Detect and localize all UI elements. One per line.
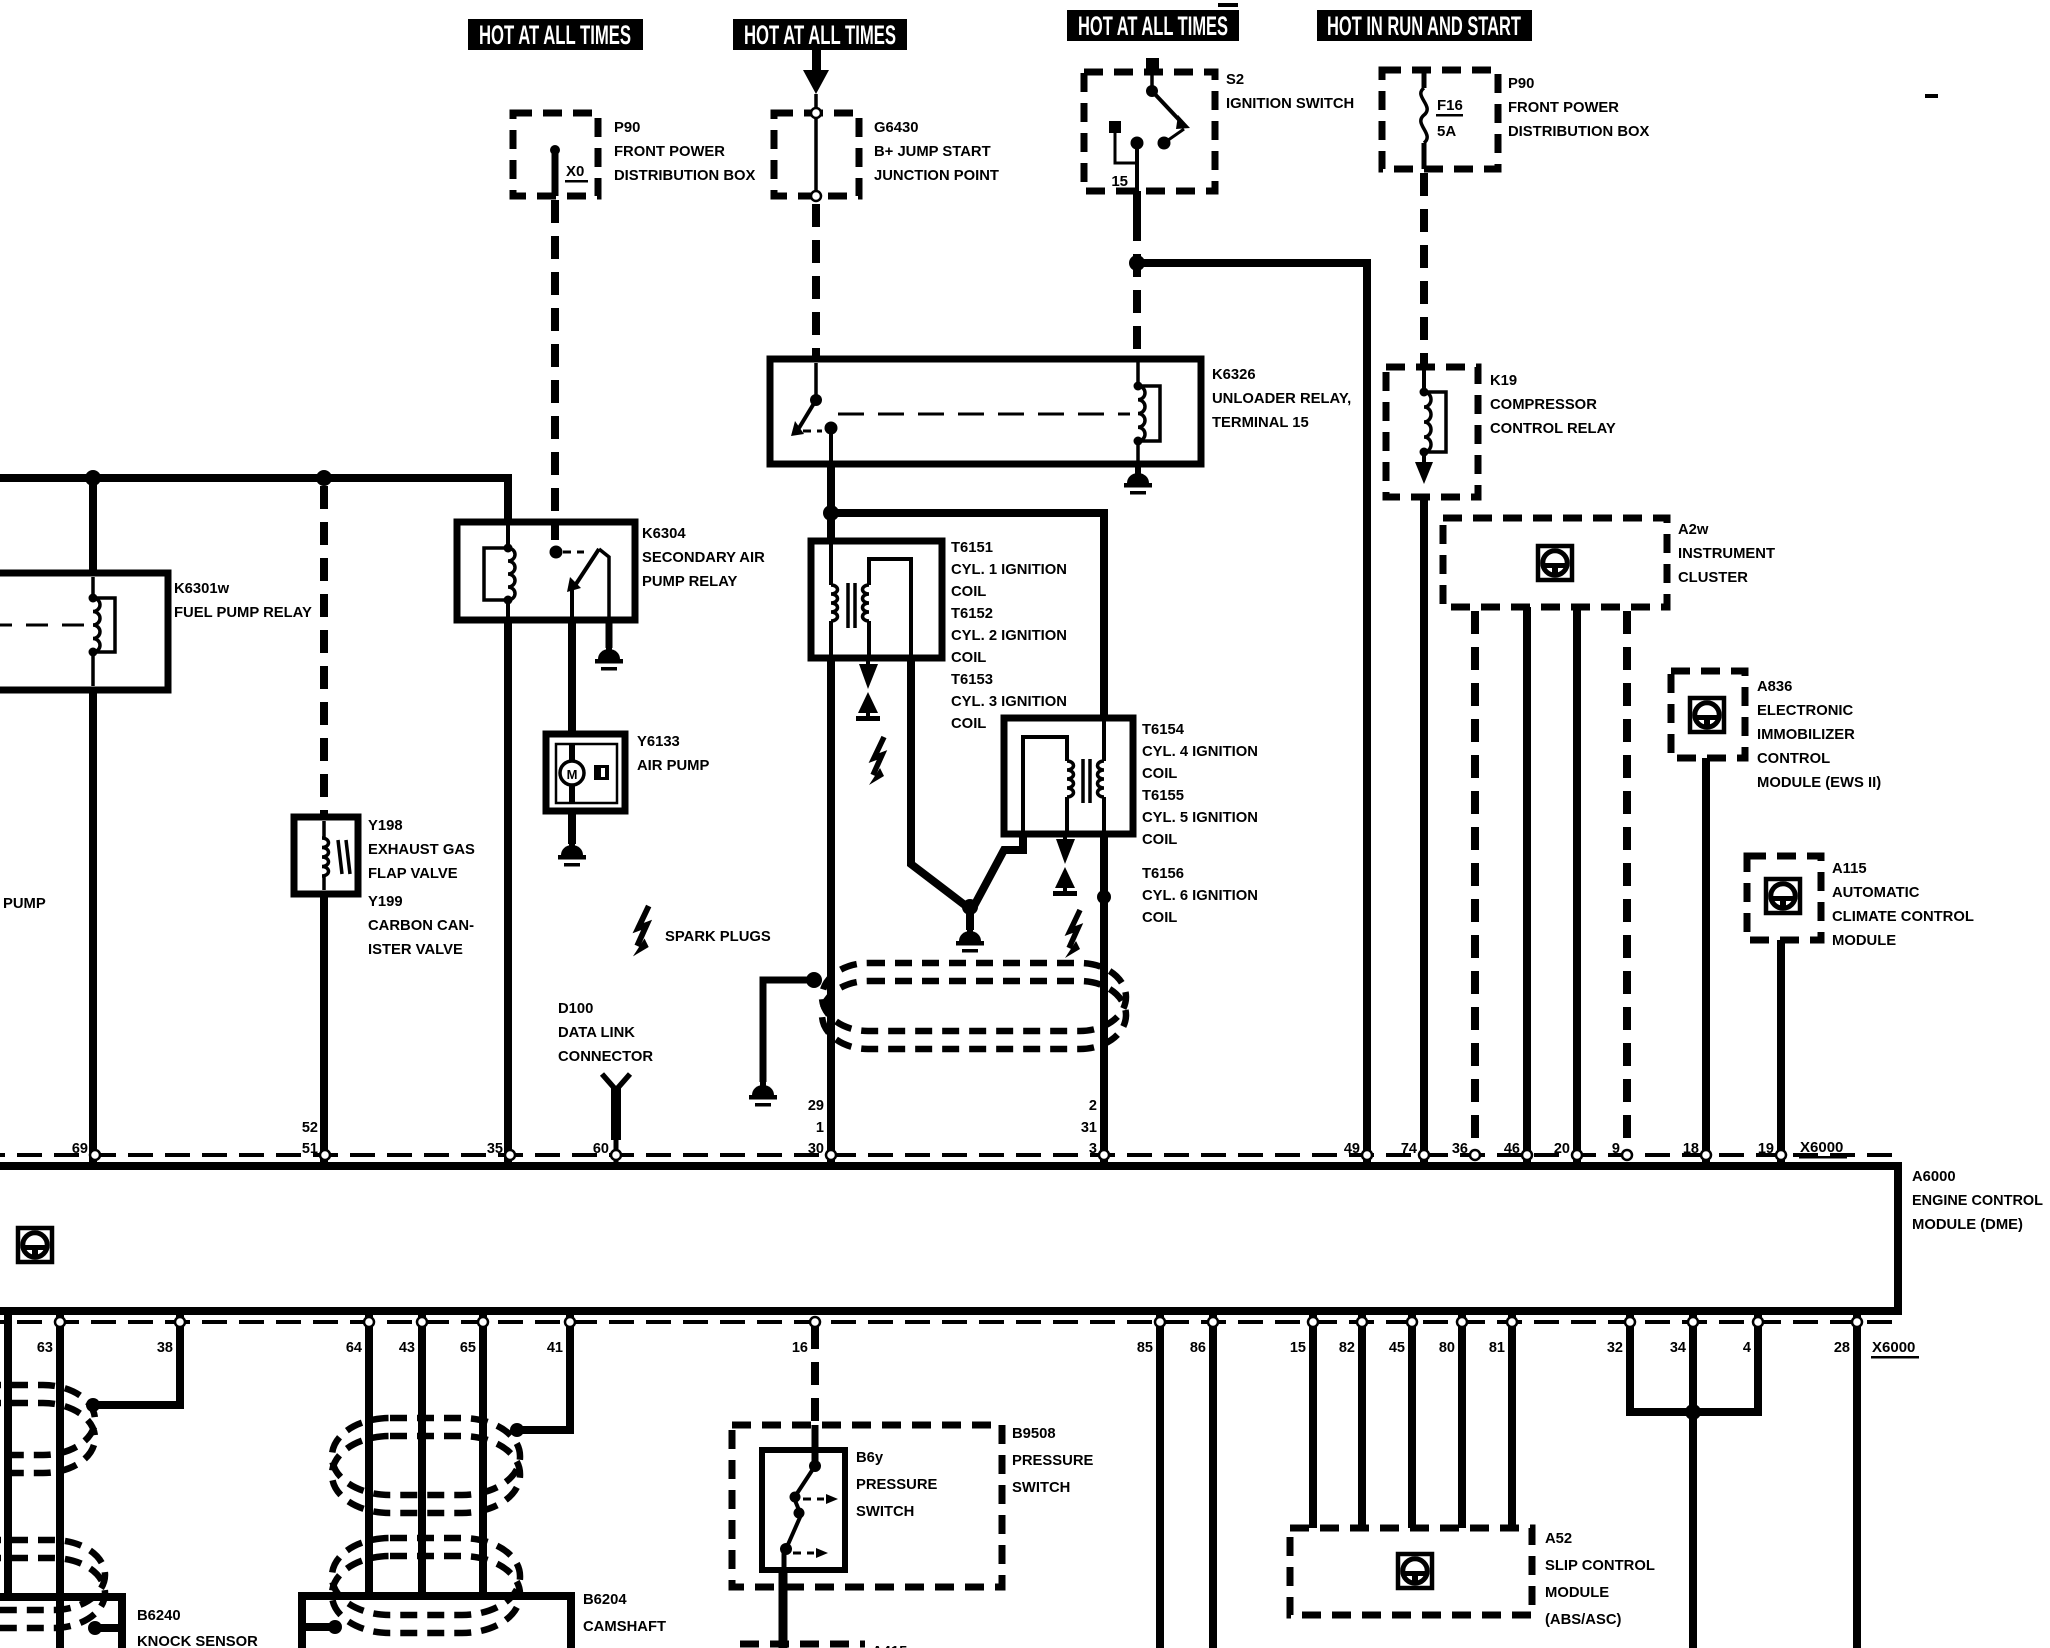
T6154 spark output arrow down <box>1056 834 1075 864</box>
svg-text:A2w: A2w <box>1678 522 1709 538</box>
svg-text:A6000: A6000 <box>1912 1169 1956 1185</box>
svg-text:46: 46 <box>1504 1141 1520 1157</box>
ground below coil secondary junction <box>956 923 984 953</box>
Y198 valve coil and flap symbol <box>322 821 350 890</box>
wire bus down to Y198 (dashed) <box>320 486 328 817</box>
wire T6154 primary to ECM pins 2/31/3 <box>1100 834 1108 1166</box>
svg-text:30: 30 <box>808 1141 824 1157</box>
wire ECM pin 63 down <box>56 1311 64 1648</box>
connector X6000 dashed line (bottom) <box>0 1320 1898 1324</box>
label D100 data link connector <box>558 1001 653 1065</box>
svg-text:86: 86 <box>1190 1340 1206 1356</box>
svg-text:32: 32 <box>1607 1340 1623 1356</box>
wire T6154 secondary return (diagonal) <box>974 834 1023 906</box>
K6301w relay coil <box>89 577 116 686</box>
svg-text:34: 34 <box>1670 1340 1686 1356</box>
svg-text:SWITCH: SWITCH <box>856 1504 914 1520</box>
svg-text:X0: X0 <box>566 163 584 180</box>
svg-text:A115: A115 <box>1832 861 1867 877</box>
X6000 bottom terminal circle pin 80 <box>1457 1317 1467 1327</box>
module A836 EWS dashed box <box>1671 671 1745 758</box>
svg-text:M: M <box>567 767 578 782</box>
junction bus to Y198 valve <box>316 470 332 486</box>
air pump Y6133 box <box>546 734 625 811</box>
ECM top pin 29 and 1 (stacked over 30) <box>808 1098 824 1136</box>
T6154 primary winding <box>1098 718 1105 834</box>
K6326 switch <box>791 363 838 464</box>
A115 steering wheel icon <box>1766 879 1800 913</box>
svg-text:20: 20 <box>1554 1141 1570 1157</box>
wire ECM pin 28 down to bottom edge <box>1853 1311 1861 1648</box>
svg-text:HOT AT ALL TIMES: HOT AT ALL TIMES <box>479 20 631 50</box>
svg-text:T6154: T6154 <box>1142 722 1185 738</box>
T6151 spark plug arrow up with bar <box>856 692 880 721</box>
X6000 bottom terminal circle pin 34 <box>1688 1317 1698 1327</box>
svg-text:K19: K19 <box>1490 373 1517 389</box>
svg-text:B6240: B6240 <box>137 1608 181 1624</box>
svg-text:B6y: B6y <box>856 1450 884 1466</box>
svg-text:K6304: K6304 <box>642 526 686 542</box>
connector D100 fork symbol <box>602 1074 630 1140</box>
svg-text:AIR PUMP: AIR PUMP <box>637 758 709 774</box>
svg-text:CLUSTER: CLUSTER <box>1678 570 1748 586</box>
svg-text:K6326: K6326 <box>1212 367 1256 383</box>
wire K6304 switch to Y6133 <box>568 620 576 734</box>
wire junction down to T6151 <box>827 517 835 541</box>
svg-text:A415: A415 <box>872 1644 907 1648</box>
label K6326 unloader relay terminal 15 <box>1212 367 1351 431</box>
switch S2 dashed outline <box>1084 72 1215 191</box>
ground below K6326 <box>1124 465 1152 495</box>
label A6000 engine control module (DME) <box>1912 1169 2043 1233</box>
svg-text:T6156: T6156 <box>1142 866 1184 882</box>
svg-text:DISTRIBUTION BOX: DISTRIBUTION BOX <box>1508 124 1650 140</box>
svg-text:Y6133: Y6133 <box>637 734 680 750</box>
ignition coil T6154 box <box>1004 718 1133 834</box>
valve Y198/Y199 box <box>294 817 358 894</box>
module A52 dashed box <box>1290 1528 1532 1615</box>
banner HOT AT ALL TIMES 2 <box>733 19 907 50</box>
svg-text:SLIP CONTROL: SLIP CONTROL <box>1545 1558 1655 1574</box>
K19 output arrow <box>1415 452 1433 484</box>
svg-text:CYL. 3 IGNITION: CYL. 3 IGNITION <box>951 694 1067 710</box>
svg-text:P90: P90 <box>1508 76 1534 92</box>
svg-text:64: 64 <box>346 1340 362 1356</box>
svg-text:CONTROL RELAY: CONTROL RELAY <box>1490 421 1616 437</box>
svg-text:15: 15 <box>1111 173 1128 190</box>
svg-text:Y199: Y199 <box>368 894 403 910</box>
cut-off dashed box below B6y <box>740 1641 865 1648</box>
label P90 front power distribution box (left) <box>614 120 756 184</box>
svg-text:K6301w: K6301w <box>174 581 230 597</box>
wire ECM pin 81 to A52 <box>1508 1311 1516 1528</box>
wire ECM pin 34 down <box>1689 1311 1697 1412</box>
svg-text:31: 31 <box>1081 1120 1097 1136</box>
svg-text:51: 51 <box>302 1141 318 1157</box>
svg-text:CYL. 6 IGNITION: CYL. 6 IGNITION <box>1142 888 1258 904</box>
S2 ignition switch contacts and blade <box>1109 58 1190 191</box>
relay K6301w box <box>0 573 168 690</box>
svg-text:3: 3 <box>1089 1141 1097 1157</box>
wire ECM pin 82 to A52 <box>1358 1311 1366 1528</box>
wire A836 to ECM pin 18 <box>1702 758 1710 1166</box>
label P90 front power distribution box (right) <box>1508 76 1650 140</box>
ground below K6304 <box>595 641 623 671</box>
X6000 top terminal circle pin 18 <box>1701 1150 1711 1160</box>
X6000 top terminal circle pin 69 <box>90 1150 100 1160</box>
knock sensor shield upper dashed stadium A <box>0 1385 95 1455</box>
junction bus to fuel pump relay <box>85 470 101 486</box>
fuse box P90 (right) dashed outline <box>1382 70 1498 169</box>
svg-text:45: 45 <box>1389 1340 1405 1356</box>
T6151 spark output arrow down <box>859 658 878 689</box>
knock shield tap junction <box>86 1398 100 1412</box>
svg-text:FUEL PUMP RELAY: FUEL PUMP RELAY <box>174 605 312 621</box>
camshaft shield upper dashed stadium A <box>332 1418 520 1495</box>
X6000 bottom terminal circle pin 28 <box>1852 1317 1862 1327</box>
ground for coil shield <box>749 1077 777 1107</box>
label A115 automatic climate control module <box>1832 861 1974 949</box>
svg-text:PUMP: PUMP <box>3 896 46 912</box>
wire junction to ground <box>966 907 974 930</box>
wire shield tap to ground <box>763 980 814 1082</box>
wire ECM pin 32 down <box>1626 1311 1634 1412</box>
svg-text:CONNECTOR: CONNECTOR <box>558 1049 653 1065</box>
svg-text:28: 28 <box>1834 1340 1850 1356</box>
svg-text:D100: D100 <box>558 1001 593 1017</box>
scan speck right of P90 label <box>1925 94 1938 98</box>
label A2w instrument cluster <box>1678 522 1775 586</box>
wire ECM pin 45 to A52 <box>1408 1311 1416 1528</box>
relay K19 dashed outline <box>1386 367 1478 497</box>
svg-text:B9508: B9508 <box>1012 1426 1056 1442</box>
svg-text:TERMINAL 15: TERMINAL 15 <box>1212 415 1309 431</box>
wire Y6133 to ground <box>568 811 576 844</box>
spark bolt near T6154 <box>1065 910 1080 958</box>
scan speck above banner 3 <box>1218 3 1238 7</box>
svg-text:COIL: COIL <box>951 584 986 600</box>
svg-text:CYL. 1 IGNITION: CYL. 1 IGNITION <box>951 562 1067 578</box>
X6000 top terminal circle pin 20 <box>1572 1150 1582 1160</box>
svg-text:69: 69 <box>72 1141 88 1157</box>
wire T6151 secondary return (diagonal) <box>911 658 966 906</box>
A6000 steering wheel icon <box>18 1228 52 1262</box>
label B9508 pressure switch <box>1012 1426 1094 1496</box>
label K6301w fuel pump relay <box>174 581 312 621</box>
module A2w instrument cluster dashed box <box>1443 518 1667 607</box>
svg-text:COIL: COIL <box>951 716 986 732</box>
svg-text:4: 4 <box>1743 1340 1751 1356</box>
wire merge bar down to bottom edge <box>1689 1412 1697 1648</box>
ground below Y6133 <box>558 837 586 867</box>
wire S2 terminal 15 down (solid then dashed) <box>1133 191 1141 218</box>
K19 relay coil <box>1420 367 1447 457</box>
junction on S2 wire <box>1129 255 1145 271</box>
svg-text:F16: F16 <box>1437 97 1463 114</box>
junction below K6326 <box>823 505 839 521</box>
svg-text:IGNITION SWITCH: IGNITION SWITCH <box>1226 96 1354 112</box>
svg-text:Y198: Y198 <box>368 818 403 834</box>
svg-text:36: 36 <box>1452 1141 1468 1157</box>
fuse F16 5A symbol <box>1421 70 1427 169</box>
svg-text:38: 38 <box>157 1340 173 1356</box>
label X6000 (bottom, underlined) <box>1871 1339 1919 1359</box>
svg-text:SPARK PLUGS: SPARK PLUGS <box>665 929 771 945</box>
svg-text:1: 1 <box>816 1120 824 1136</box>
X6000 bottom terminal circle pin 85 <box>1155 1317 1165 1327</box>
X6000 bottom terminal circle pin 65 <box>478 1317 488 1327</box>
svg-text:PUMP RELAY: PUMP RELAY <box>642 574 738 590</box>
connector B6240 bar <box>0 1597 122 1648</box>
wire K6301w to ECM pin 69 <box>89 690 97 1166</box>
svg-text:9: 9 <box>1612 1141 1620 1157</box>
wire ECM pin 64 down to B6204 <box>365 1311 373 1596</box>
X6000 top terminal circle pin 36 <box>1470 1150 1480 1160</box>
B6204 stub with junction <box>302 1620 342 1634</box>
ignition coil T6151 box <box>811 541 942 658</box>
svg-text:MODULE (EWS II): MODULE (EWS II) <box>1757 775 1881 791</box>
wire from S2 junction to ECM pin 49 (right angle) <box>1141 263 1367 1166</box>
svg-text:T6151: T6151 <box>951 540 993 556</box>
horizontal power bus wire <box>0 478 508 522</box>
svg-text:COIL: COIL <box>1142 766 1177 782</box>
ECM top pin 2 and 31 (stacked over 3) <box>1081 1098 1097 1136</box>
A52 steering wheel icon <box>1398 1554 1432 1588</box>
X6000 top terminal circle pin 30 <box>826 1150 836 1160</box>
label K19 compressor control relay <box>1490 373 1616 437</box>
K6326 internal dashed link line <box>838 413 1130 416</box>
label B6240 knock sensor <box>137 1608 258 1648</box>
svg-text:ISTER VALVE: ISTER VALVE <box>368 942 463 958</box>
wire A2w to ECM pin 9 (dashed) <box>1623 611 1631 1152</box>
svg-text:19: 19 <box>1758 1141 1774 1157</box>
svg-text:ENGINE CONTROL: ENGINE CONTROL <box>1912 1193 2043 1209</box>
X6000 bottom terminal circle pin 16 <box>810 1317 820 1327</box>
switch B9508 outer dashed box <box>732 1425 1002 1587</box>
knock sensor shield lower dashed stadium B <box>0 1558 105 1628</box>
svg-text:74: 74 <box>1401 1141 1417 1157</box>
svg-text:SWITCH: SWITCH <box>1012 1480 1070 1496</box>
X6000 bottom terminal circle pin 86 <box>1208 1317 1218 1327</box>
wire ECM pin 86 down to bottom edge <box>1209 1311 1217 1648</box>
junction of coil secondary returns <box>962 899 978 915</box>
svg-text:HOT AT ALL TIMES: HOT AT ALL TIMES <box>744 20 896 50</box>
camshaft shield lower dashed stadium B <box>332 1556 520 1633</box>
label X0 (underlined) <box>565 163 588 183</box>
wire ECM pin 65 down to B6204 <box>479 1311 487 1596</box>
wire K19 to ECM pin 74 <box>1420 497 1428 1166</box>
X6000 bottom terminal circle pin 81 <box>1507 1317 1517 1327</box>
K6304 switch <box>550 546 610 621</box>
label A52 slip control module (ABS/ASC) <box>1545 1531 1655 1628</box>
label X6000 (top, underlined) <box>1799 1139 1847 1159</box>
banner HOT IN RUN AND START <box>1317 10 1532 41</box>
svg-text:18: 18 <box>1683 1141 1699 1157</box>
banner HOT AT ALL TIMES 1 <box>468 19 643 50</box>
svg-text:82: 82 <box>1339 1340 1355 1356</box>
fuse box P90 (left) dashed outline <box>513 113 598 196</box>
svg-text:5A: 5A <box>1437 123 1456 140</box>
svg-text:PRESSURE: PRESSURE <box>1012 1453 1094 1469</box>
svg-text:MODULE: MODULE <box>1545 1585 1609 1601</box>
switch B6y inner box <box>762 1450 845 1570</box>
X6000 top terminal circle pin 49 <box>1362 1150 1372 1160</box>
T6154 core <box>1083 759 1090 803</box>
A2w steering wheel icon <box>1538 546 1572 580</box>
T6154 spark plug arrow up with bar <box>1053 867 1077 896</box>
svg-text:FLAP VALVE: FLAP VALVE <box>368 866 458 882</box>
connector B6204 bar <box>302 1596 571 1648</box>
wire A115 to ECM pin 19 <box>1777 940 1785 1166</box>
X6000 top terminal circle pin 19 <box>1776 1150 1786 1160</box>
wire K6326 coil to ground <box>1135 464 1141 474</box>
svg-text:T6152: T6152 <box>951 606 993 622</box>
svg-text:X6000: X6000 <box>1872 1339 1915 1356</box>
wire ECM pin 16 to B6y (dashed) <box>811 1326 819 1425</box>
label B6y pressure switch <box>856 1450 938 1520</box>
X6000 top terminal circle pin 74 <box>1419 1150 1429 1160</box>
svg-text:COIL: COIL <box>1142 832 1177 848</box>
svg-text:T6155: T6155 <box>1142 788 1184 804</box>
Y6133 motor symbol <box>560 744 609 803</box>
svg-text:80: 80 <box>1439 1340 1455 1356</box>
svg-text:T6153: T6153 <box>951 672 993 688</box>
wire K6304 contact to ground <box>606 620 613 648</box>
camshaft shield lower dashed stadium A <box>332 1538 520 1615</box>
X6000 bottom terminal circle pin 15 <box>1308 1317 1318 1327</box>
T6154 secondary loop and winding <box>1023 737 1074 834</box>
module A115 dashed box <box>1747 856 1821 940</box>
wire ECM pin 4 down <box>1754 1311 1762 1412</box>
svg-text:16: 16 <box>792 1340 808 1356</box>
node G6430 B+ jump start arrow <box>803 50 829 94</box>
label F16 / 5A (underlined) <box>1436 97 1463 140</box>
label T6151/T6152/T6153 cyl 1-3 ignition coils <box>951 540 1067 732</box>
label Y6133 air pump <box>637 734 709 774</box>
X6000 bottom terminal circle pin 38 <box>175 1317 185 1327</box>
T6151 core <box>848 583 855 628</box>
label S2 ignition switch <box>1226 72 1354 112</box>
svg-text:COIL: COIL <box>951 650 986 666</box>
wire P90 F16 down to K19 (dashed) <box>1420 173 1428 367</box>
camshaft shield tap junction <box>510 1423 524 1437</box>
X6000 bottom terminal circle pin 41 <box>565 1317 575 1327</box>
wire T6151 primary to ECM pins 29/1/30 <box>827 658 835 1166</box>
svg-text:FRONT POWER: FRONT POWER <box>614 144 725 160</box>
module A6000 engine control module box <box>0 1166 1898 1311</box>
wire A2w to ECM pin 46 <box>1523 607 1531 1166</box>
svg-text:CYL. 2 IGNITION: CYL. 2 IGNITION <box>951 628 1067 644</box>
wire G6430 to K6326 (dashed) <box>812 204 820 359</box>
wire ECM pin 41 to camshaft shield tap <box>517 1311 570 1430</box>
wire K6326 switch output down <box>827 464 835 513</box>
svg-text:COMPRESSOR: COMPRESSOR <box>1490 397 1597 413</box>
svg-text:DATA LINK: DATA LINK <box>558 1025 635 1041</box>
svg-text:CONTROL: CONTROL <box>1757 751 1830 767</box>
label G6430 B+ jump start junction point <box>874 120 999 184</box>
T6151 primary winding <box>831 541 838 658</box>
wire D100 to ECM pin 60 <box>614 1140 619 1166</box>
svg-text:COIL: COIL <box>1142 910 1177 926</box>
svg-text:FRONT POWER: FRONT POWER <box>1508 100 1619 116</box>
banner HOT AT ALL TIMES 3 <box>1067 10 1239 41</box>
P90 left internal wire stub X0 <box>550 145 560 196</box>
svg-text:S2: S2 <box>1226 72 1244 88</box>
K6304 relay coil <box>484 522 515 620</box>
X6000 top terminal circle pin 9 <box>1622 1150 1632 1160</box>
svg-text:41: 41 <box>547 1340 563 1356</box>
svg-text:EXHAUST GAS: EXHAUST GAS <box>368 842 475 858</box>
svg-text:HOT IN RUN AND START: HOT IN RUN AND START <box>1327 11 1521 41</box>
label Y198 exhaust gas flap valve / Y199 carbon canister valve <box>368 818 475 958</box>
svg-text:81: 81 <box>1489 1340 1505 1356</box>
svg-text:UNLOADER RELAY,: UNLOADER RELAY, <box>1212 391 1351 407</box>
X6000 top terminal circle pin 51 <box>320 1150 330 1160</box>
X6000 bottom terminal circle pin 64 <box>364 1317 374 1327</box>
X6000 top terminal circle pin 35 <box>505 1150 515 1160</box>
svg-text:KNOCK SENSOR: KNOCK SENSOR <box>137 1634 258 1648</box>
B6y switch mechanism <box>780 1425 838 1570</box>
wire ECM pin 43 down to B6204 <box>418 1311 426 1596</box>
svg-text:52: 52 <box>302 1120 318 1136</box>
label T6154/T6155/T6156 cyl 4-6 ignition coils <box>1142 722 1258 926</box>
wire Y198 to ECM pins 52/51 <box>320 894 328 1166</box>
spark bolt near T6151 <box>869 737 884 785</box>
wire ECM pin 15 to A52 <box>1309 1311 1317 1528</box>
shield ground tap junction <box>806 972 822 988</box>
svg-text:IMMOBILIZER: IMMOBILIZER <box>1757 727 1855 743</box>
wire ECM pin 80 to A52 <box>1458 1311 1466 1528</box>
svg-text:85: 85 <box>1137 1340 1153 1356</box>
A836 steering wheel icon <box>1690 698 1724 732</box>
G6430 internal wire with terminals <box>811 94 821 201</box>
X6000 bottom terminal circle pin 32 <box>1625 1317 1635 1327</box>
svg-text:CAMSHAFT: CAMSHAFT <box>583 1619 666 1635</box>
shield braid around coil wires (upper dashed stadium) <box>822 963 1126 1031</box>
svg-text:2: 2 <box>1089 1098 1097 1114</box>
X6000 bottom terminal circle pin 82 <box>1357 1317 1367 1327</box>
svg-text:65: 65 <box>460 1340 476 1356</box>
svg-text:DISTRIBUTION BOX: DISTRIBUTION BOX <box>614 168 756 184</box>
wire from P90 X0 down to K6304 (dashed hot feed) <box>551 200 559 540</box>
svg-text:AUTOMATIC: AUTOMATIC <box>1832 885 1920 901</box>
wire junction to T6154 primary feed (right angle) <box>835 513 1104 718</box>
relay K6304 box <box>457 522 635 620</box>
svg-text:HOT AT ALL TIMES: HOT AT ALL TIMES <box>1078 11 1228 41</box>
wire A2w to ECM pin 36 (dashed) <box>1471 611 1479 1152</box>
svg-text:B6204: B6204 <box>583 1592 627 1608</box>
wire K6304 coil to ECM pin 35 <box>504 620 512 1166</box>
X6000 top terminal circle pin 60 <box>611 1150 621 1160</box>
svg-text:A52: A52 <box>1545 1531 1572 1547</box>
junction point G6430 dashed outline <box>774 113 859 196</box>
wire ECM pin 85 down to bottom edge <box>1156 1311 1164 1648</box>
T6151 secondary winding and loop <box>863 559 912 658</box>
svg-text:CARBON CAN-: CARBON CAN- <box>368 918 474 934</box>
X6000 bottom terminal circle pin 43 <box>417 1317 427 1327</box>
svg-text:43: 43 <box>399 1340 415 1356</box>
wire ECM far-left pin down to B6240 <box>4 1311 12 1600</box>
X6000 bottom terminal circle pin 63 <box>55 1317 65 1327</box>
knock sensor shield upper dashed stadium B <box>0 1403 95 1473</box>
connector X6000 dashed line (top) <box>0 1153 1898 1157</box>
label A836 electronic immobilizer control module <box>1757 679 1881 791</box>
wire bus down into K6301w coil <box>89 478 97 573</box>
merge bar for pins 32/34/4 <box>1630 1408 1758 1412</box>
svg-text:CYL. 5 IGNITION: CYL. 5 IGNITION <box>1142 810 1258 826</box>
relay K6326 box <box>770 359 1201 464</box>
svg-text:CLIMATE CONTROL: CLIMATE CONTROL <box>1832 909 1974 925</box>
